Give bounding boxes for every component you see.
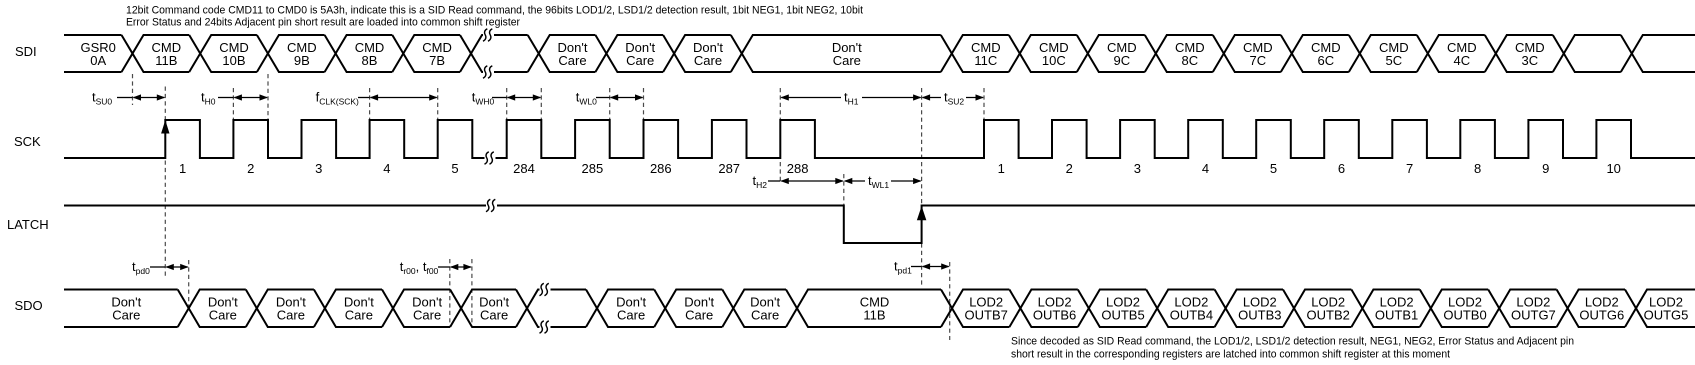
svg-text:8B: 8B <box>362 53 378 68</box>
svg-text:8: 8 <box>1474 161 1481 176</box>
svg-text:Care: Care <box>751 308 779 323</box>
svg-text:9C: 9C <box>1113 53 1130 68</box>
SCK clock waveform <box>64 120 1695 158</box>
dashed line t_f00 guide <box>471 259 473 327</box>
svg-text:SDO: SDO <box>15 298 43 313</box>
svg-text:6C: 6C <box>1317 53 1334 68</box>
svg-text:OUTB4: OUTB4 <box>1170 308 1213 323</box>
svg-text:Since decoded as SID Read comm: Since decoded as SID Read command, the L… <box>1011 336 1574 348</box>
dashed line t_SU0 left guide <box>132 74 134 105</box>
SDI bus waveform lines <box>64 35 1695 72</box>
svg-text:SDI: SDI <box>15 44 37 59</box>
svg-text:Care: Care <box>558 53 586 68</box>
LATCH break mark <box>486 199 490 211</box>
dashed line LATCH rise guide <box>921 88 923 287</box>
LATCH waveform with low pulse <box>64 206 1695 244</box>
svg-text:short result in the correspond: short result in the corresponding regist… <box>1011 349 1450 361</box>
SDI break marks <box>483 29 487 41</box>
svg-text:OUTG5: OUTG5 <box>1644 308 1689 323</box>
LATCH rising edge up arrow <box>917 206 927 220</box>
svg-text:Care: Care <box>833 53 861 68</box>
annotation t_SU2 <box>923 97 983 99</box>
svg-text:11B: 11B <box>155 53 177 68</box>
dashed line t_H1 left guide <box>779 88 781 182</box>
svg-text:284: 284 <box>513 161 535 176</box>
svg-text:10B: 10B <box>222 53 245 68</box>
dashed line t_WH0 left guide <box>506 88 508 119</box>
svg-text:12bit Command code CMD11 to CM: 12bit Command code CMD11 to CMD0 is 5A3h… <box>126 5 863 17</box>
svg-text:Error Status and 24bits Adjace: Error Status and 24bits Adjacent pin sho… <box>126 17 520 29</box>
dashed line t_WL0 left guide <box>609 88 611 119</box>
dashed line t_WL0 right guide <box>643 88 645 119</box>
svg-text:Care: Care <box>685 308 713 323</box>
SCK first rising edge up arrow <box>161 120 169 134</box>
svg-text:Care: Care <box>209 308 237 323</box>
svg-text:OUTG7: OUTG7 <box>1511 308 1556 323</box>
SCK break mark <box>485 152 489 164</box>
svg-text:Care: Care <box>617 308 645 323</box>
svg-text:4C: 4C <box>1453 53 1470 68</box>
svg-text:Care: Care <box>694 53 722 68</box>
svg-text:Care: Care <box>413 308 441 323</box>
annotation t_WL1 <box>845 180 921 182</box>
svg-text:Care: Care <box>277 308 305 323</box>
svg-text:OUTB6: OUTB6 <box>1033 308 1076 323</box>
dashed line t_H0 left guide <box>232 88 234 119</box>
svg-text:0A: 0A <box>90 53 106 68</box>
svg-text:5C: 5C <box>1385 53 1402 68</box>
dashed line f_CLK right guide <box>437 88 439 119</box>
svg-text:10: 10 <box>1606 161 1620 176</box>
svg-text:8C: 8C <box>1181 53 1198 68</box>
svg-text:2: 2 <box>1066 161 1073 176</box>
svg-text:287: 287 <box>718 161 740 176</box>
svg-text:7: 7 <box>1406 161 1413 176</box>
svg-text:OUTB0: OUTB0 <box>1443 308 1486 323</box>
dashed line t_WH0 right guide <box>540 88 542 119</box>
svg-text:1: 1 <box>998 161 1005 176</box>
svg-text:10C: 10C <box>1042 53 1066 68</box>
svg-text:1: 1 <box>179 161 186 176</box>
SDO break marks <box>540 283 544 295</box>
dashed line SDO first transition guide <box>188 260 190 308</box>
svg-text:OUTB5: OUTB5 <box>1101 308 1144 323</box>
svg-text:7C: 7C <box>1249 53 1266 68</box>
svg-text:5: 5 <box>451 161 458 176</box>
svg-text:3: 3 <box>315 161 322 176</box>
svg-text:3: 3 <box>1134 161 1141 176</box>
dashed line t_SU0 right / SCK edge guide <box>164 87 166 277</box>
svg-text:LATCH: LATCH <box>7 217 49 232</box>
svg-text:Care: Care <box>480 308 508 323</box>
svg-text:OUTG6: OUTG6 <box>1579 308 1624 323</box>
svg-text:Care: Care <box>626 53 654 68</box>
svg-text:Care: Care <box>112 308 140 323</box>
svg-text:286: 286 <box>650 161 672 176</box>
svg-text:11C: 11C <box>974 53 997 68</box>
svg-text:OUTB2: OUTB2 <box>1307 308 1350 323</box>
svg-text:3C: 3C <box>1521 53 1538 68</box>
dashed line f_CLK left guide <box>369 88 371 119</box>
svg-text:288: 288 <box>787 161 809 176</box>
svg-text:5: 5 <box>1270 161 1277 176</box>
svg-text:4: 4 <box>1202 161 1209 176</box>
svg-text:285: 285 <box>582 161 604 176</box>
svg-text:9B: 9B <box>294 53 310 68</box>
svg-text:9: 9 <box>1542 161 1549 176</box>
svg-text:11B: 11B <box>863 308 885 323</box>
svg-text:OUTB7: OUTB7 <box>965 308 1008 323</box>
dashed line LATCH fall guide <box>843 174 845 205</box>
dashed line t_pd1 right guide <box>949 262 951 340</box>
SDO bus waveform lines <box>64 290 1695 328</box>
svg-text:6: 6 <box>1338 161 1345 176</box>
svg-text:7B: 7B <box>429 53 445 68</box>
svg-text:Care: Care <box>345 308 373 323</box>
svg-text:OUTB1: OUTB1 <box>1375 308 1418 323</box>
svg-text:SCK: SCK <box>14 134 41 149</box>
dashed line t_H0 right guide <box>267 74 269 119</box>
svg-text:2: 2 <box>247 161 254 176</box>
dashed line t_r00 guide <box>449 259 451 327</box>
svg-text:4: 4 <box>383 161 390 176</box>
annotation t_H1 <box>781 97 920 99</box>
dashed line t_SU2 right guide <box>983 88 985 119</box>
svg-text:OUTB3: OUTB3 <box>1238 308 1281 323</box>
